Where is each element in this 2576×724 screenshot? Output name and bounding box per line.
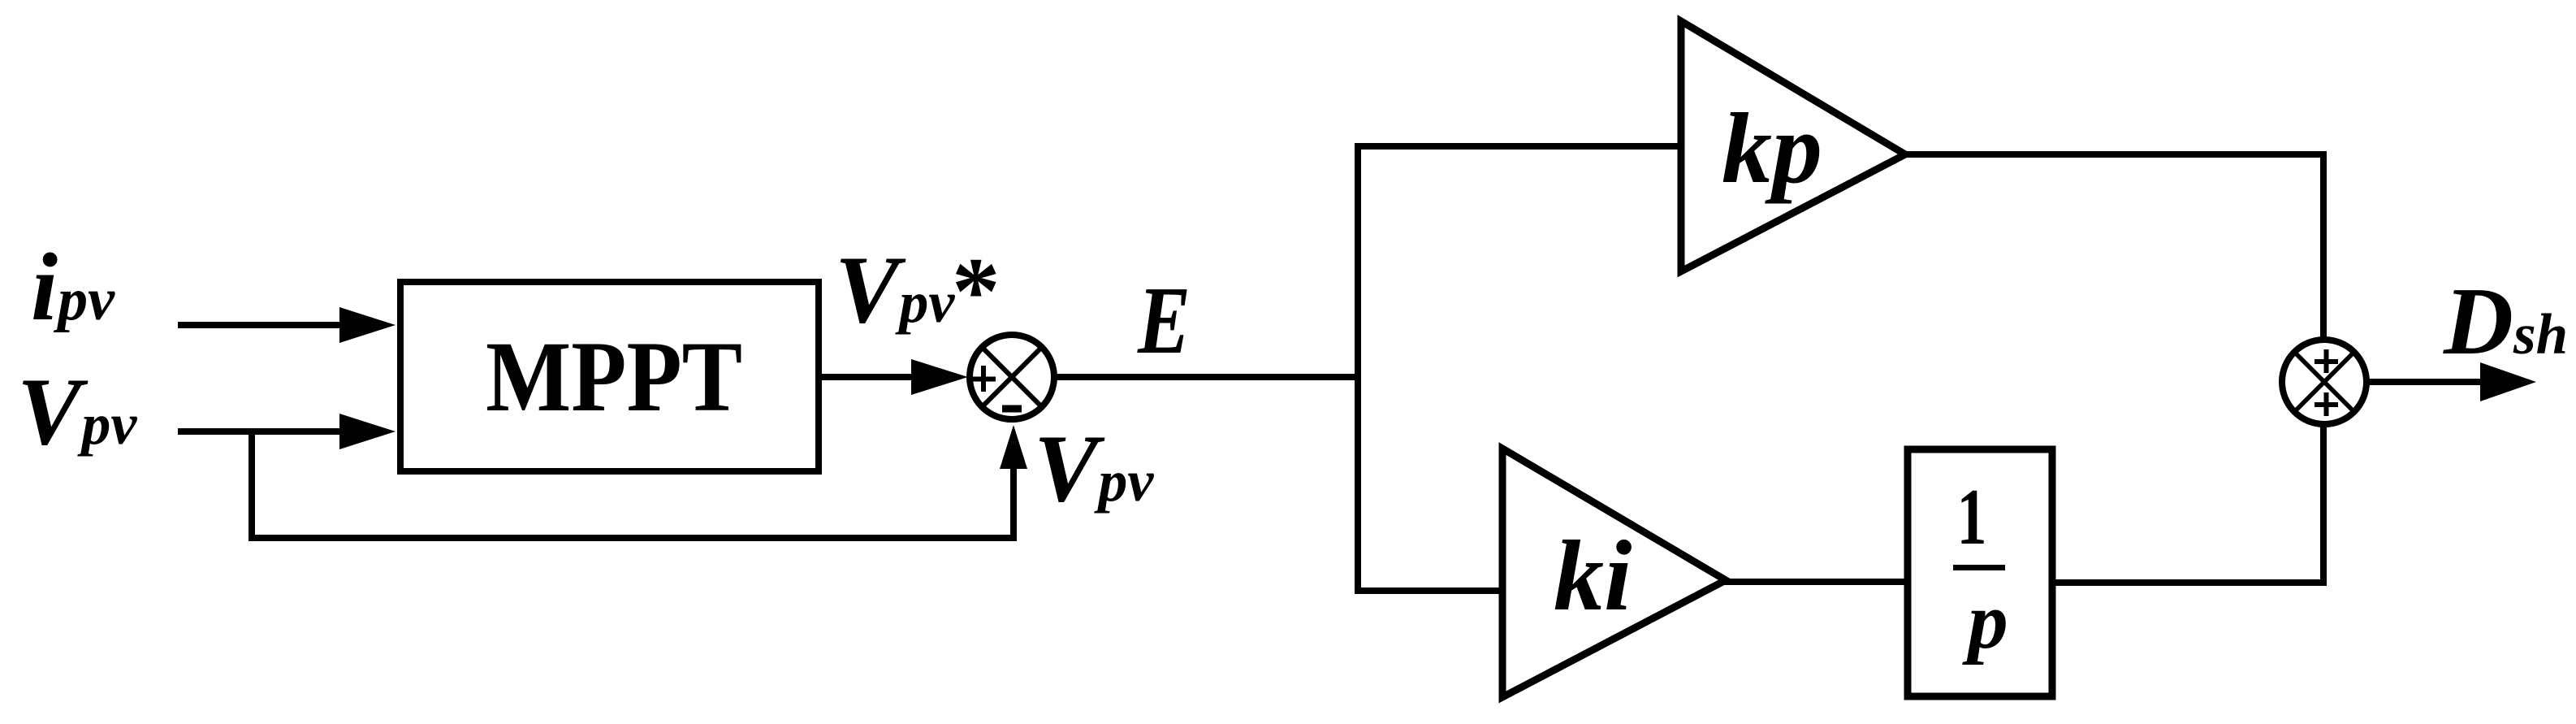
svg-text:E: E bbox=[1137, 267, 1191, 374]
svg-text:1: 1 bbox=[1957, 473, 1987, 561]
wire feedback bottom bbox=[249, 535, 1017, 541]
label V_pv* bbox=[835, 236, 1001, 345]
arrowhead i_pv into MPPT bbox=[339, 307, 395, 343]
wire up into sum2 bbox=[2320, 424, 2327, 586]
summing junction S2 bbox=[2282, 340, 2366, 424]
sum2 plus top bbox=[2315, 349, 2338, 373]
sum1 minus sign bbox=[1002, 405, 1022, 413]
block MPPT bbox=[400, 282, 819, 471]
label V_pv feedback bbox=[1034, 414, 1154, 522]
wire ki to 1/p bbox=[1722, 579, 1911, 585]
node branch vertical bbox=[1355, 143, 1361, 594]
wire feedback branch down bbox=[249, 428, 255, 541]
summing junction S1 bbox=[970, 335, 1054, 419]
sum2 plus bottom bbox=[2315, 392, 2338, 416]
wire kp to sum2 bbox=[1902, 151, 2327, 158]
svg-text:*: * bbox=[952, 237, 1001, 345]
wire MPPT to sum1 bbox=[822, 374, 918, 380]
wire down into sum2 bbox=[2320, 151, 2327, 342]
svg-text:MPPT: MPPT bbox=[486, 321, 742, 432]
label i_pv bbox=[31, 233, 115, 340]
label 1/p fraction bar bbox=[1953, 565, 2005, 570]
svg-text:ki: ki bbox=[1554, 520, 1632, 631]
block 1/p bbox=[1908, 449, 2052, 696]
wire to kp bbox=[1355, 143, 1684, 150]
arrowhead into sum1 bbox=[911, 359, 968, 395]
svg-text:p: p bbox=[1961, 577, 2008, 665]
wire i_pv input bbox=[178, 322, 345, 328]
gain kp triangle bbox=[1681, 21, 1905, 271]
wire V_pv input bbox=[178, 428, 345, 435]
arrowhead V_pv into MPPT bbox=[339, 414, 395, 449]
svg-text:kp: kp bbox=[1722, 93, 1822, 204]
label D_sh bbox=[2443, 267, 2568, 375]
sum1 plus sign bbox=[969, 366, 996, 392]
label V_pv bbox=[17, 358, 137, 465]
wire 1/p to sum2 bbox=[2052, 579, 2327, 586]
wire E to ki bbox=[1358, 587, 1506, 594]
wire D_sh out bbox=[2366, 379, 2483, 385]
gain ki triangle bbox=[1502, 449, 1726, 697]
wire feedback up bbox=[1010, 467, 1017, 541]
arrowhead feedback into sum1 bbox=[1000, 425, 1027, 469]
wire E bbox=[1054, 374, 1361, 380]
arrowhead D_sh bbox=[2480, 362, 2536, 401]
